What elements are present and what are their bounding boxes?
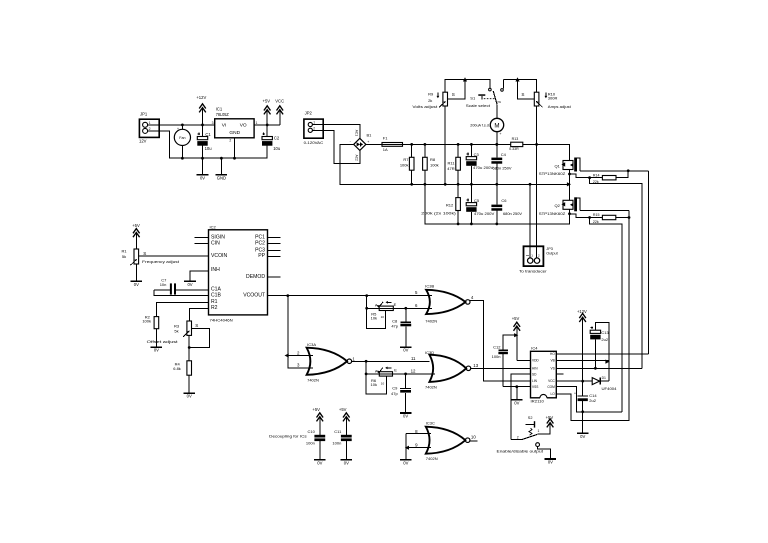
svg-text:100k: 100k <box>430 163 439 168</box>
svg-text:JP2: JP2 <box>305 110 313 115</box>
svg-text:GND: GND <box>217 176 226 181</box>
svg-text:0V: 0V <box>187 394 192 399</box>
svg-text:R7: R7 <box>403 157 409 162</box>
svg-text:C3: C3 <box>474 152 480 157</box>
svg-text:C11: C11 <box>334 429 342 434</box>
svg-text:LO: LO <box>551 392 556 396</box>
svg-text:JP1: JP1 <box>140 111 148 116</box>
svg-text:B1: B1 <box>367 132 373 137</box>
svg-text:10k: 10k <box>371 382 377 387</box>
svg-text:DEMOD: DEMOD <box>246 274 265 280</box>
svg-text:100n: 100n <box>492 354 501 359</box>
svg-text:470u 200V: 470u 200V <box>474 211 495 216</box>
svg-text:5k: 5k <box>174 329 178 334</box>
svg-text:VS: VS <box>551 366 555 370</box>
svg-text:100k: 100k <box>400 163 409 168</box>
svg-text:78L05Z: 78L05Z <box>216 112 230 117</box>
svg-text:1: 1 <box>538 429 540 433</box>
svg-text:IR2110: IR2110 <box>531 399 544 403</box>
svg-text:R8: R8 <box>430 157 436 162</box>
svg-text:C10: C10 <box>307 429 315 434</box>
svg-text:LIN: LIN <box>532 379 538 383</box>
svg-text:VCOIN: VCOIN <box>211 253 227 259</box>
svg-text:To transducer: To transducer <box>519 269 547 274</box>
svg-text:Scale select: Scale select <box>466 103 491 108</box>
svg-text:0V: 0V <box>403 348 408 353</box>
svg-text:+5V: +5V <box>132 223 140 228</box>
svg-text:680n 250V: 680n 250V <box>503 211 522 216</box>
svg-text:R15: R15 <box>593 213 600 217</box>
svg-text:C4: C4 <box>501 152 507 157</box>
svg-text:VCOOUT: VCOOUT <box>243 292 265 298</box>
svg-text:STP13NK60Z: STP13NK60Z <box>539 212 566 216</box>
svg-text:+5V: +5V <box>546 415 554 420</box>
svg-text:Decoupling for ICs: Decoupling for ICs <box>269 434 307 439</box>
svg-text:0V: 0V <box>514 400 519 405</box>
svg-text:Enable/disable output: Enable/disable output <box>497 448 545 453</box>
svg-text:2u2: 2u2 <box>601 337 608 342</box>
svg-text:200uA f.s.d.: 200uA f.s.d. <box>470 124 490 128</box>
svg-text:0V: 0V <box>134 282 139 287</box>
svg-text:S: S <box>521 92 524 97</box>
svg-text:6.8k: 6.8k <box>173 366 181 371</box>
svg-text:A: A <box>375 368 378 373</box>
svg-text:2u2: 2u2 <box>589 398 596 403</box>
svg-text:0V: 0V <box>344 461 349 466</box>
svg-text:10: 10 <box>381 381 385 385</box>
svg-text:AC2: AC2 <box>354 155 358 161</box>
svg-text:PP: PP <box>258 253 265 259</box>
svg-text:Q2: Q2 <box>554 203 560 208</box>
svg-text:IC3C: IC3C <box>426 421 435 426</box>
svg-text:S: S <box>143 251 146 256</box>
svg-text:47R: 47R <box>447 166 454 171</box>
svg-text:SD: SD <box>532 372 537 376</box>
svg-text:7402N: 7402N <box>425 319 437 324</box>
svg-text:680n 250V: 680n 250V <box>493 166 512 171</box>
svg-text:STP13NK60Z: STP13NK60Z <box>539 172 566 176</box>
svg-text:22k: 22k <box>593 220 599 224</box>
svg-text:2: 2 <box>517 436 519 440</box>
svg-text:C2: C2 <box>274 136 280 141</box>
svg-text:0.33R: 0.33R <box>509 147 519 151</box>
svg-text:10k: 10k <box>371 316 377 321</box>
svg-text:11: 11 <box>411 356 416 361</box>
svg-text:INH: INH <box>211 267 220 273</box>
svg-text:F1: F1 <box>383 136 388 141</box>
svg-text:470u 200V: 470u 200V <box>473 165 494 170</box>
svg-text:2: 2 <box>313 126 315 130</box>
svg-text:1A: 1A <box>383 147 388 152</box>
svg-text:0V: 0V <box>187 282 192 287</box>
svg-text:R2: R2 <box>211 305 218 311</box>
svg-text:VSS: VSS <box>532 385 538 389</box>
svg-text:Q1: Q1 <box>554 163 560 168</box>
svg-text:7402N: 7402N <box>425 385 437 390</box>
svg-text:M: M <box>494 122 499 129</box>
svg-text:D1: D1 <box>602 376 606 380</box>
svg-text:10u: 10u <box>273 146 281 151</box>
svg-text:IC3A: IC3A <box>307 342 316 347</box>
svg-text:Frequency adjust: Frequency adjust <box>142 259 180 264</box>
svg-text:A: A <box>375 303 378 308</box>
svg-text:VO: VO <box>240 122 247 128</box>
svg-text:COM: COM <box>547 385 555 389</box>
svg-text:R14: R14 <box>593 173 600 177</box>
svg-text:AC1: AC1 <box>354 130 358 136</box>
svg-text:R9: R9 <box>428 92 434 97</box>
svg-text:7402N: 7402N <box>307 377 319 382</box>
svg-text:3: 3 <box>212 121 214 125</box>
svg-text:IC4: IC4 <box>531 346 538 351</box>
svg-text:R11: R11 <box>448 160 456 165</box>
svg-text:UF4004: UF4004 <box>602 387 617 391</box>
svg-text:S2: S2 <box>528 416 533 420</box>
svg-text:+5V: +5V <box>512 316 520 321</box>
svg-text:IC1: IC1 <box>216 107 223 112</box>
svg-text:CIN: CIN <box>211 241 220 247</box>
svg-text:100n: 100n <box>306 440 315 445</box>
svg-text:74HC4046N: 74HC4046N <box>210 317 233 322</box>
svg-text:IC2: IC2 <box>210 224 217 229</box>
svg-text:Fan: Fan <box>179 136 185 140</box>
svg-text:47p: 47p <box>391 323 398 328</box>
svg-text:12V: 12V <box>139 138 147 143</box>
svg-text:10n: 10n <box>160 282 167 287</box>
svg-text:0V: 0V <box>403 414 408 419</box>
svg-text:C6: C6 <box>501 198 507 203</box>
svg-text:PC1: PC1 <box>255 234 265 240</box>
svg-text:10: 10 <box>381 315 385 319</box>
svg-text:JP3: JP3 <box>546 247 553 251</box>
svg-text:C1B: C1B <box>211 292 222 298</box>
svg-text:S: S <box>452 92 455 97</box>
svg-text:CW: CW <box>497 100 502 104</box>
svg-text:VDD: VDD <box>532 358 539 362</box>
svg-text:R13: R13 <box>512 137 519 141</box>
svg-text:1: 1 <box>256 121 258 125</box>
svg-text:+12V: +12V <box>196 95 206 100</box>
svg-text:300R: 300R <box>548 96 558 101</box>
svg-text:E: E <box>394 302 397 307</box>
svg-text:0V: 0V <box>317 461 322 466</box>
svg-text:12: 12 <box>411 369 416 374</box>
svg-text:IC3B: IC3B <box>425 283 434 288</box>
svg-text:100n: 100n <box>332 440 341 445</box>
svg-text:C12: C12 <box>493 344 501 349</box>
svg-text:47p: 47p <box>391 391 398 396</box>
svg-text:10u: 10u <box>205 146 213 151</box>
svg-text:VCC: VCC <box>275 98 284 103</box>
svg-text:0V: 0V <box>580 434 585 439</box>
svg-text:10: 10 <box>471 435 476 440</box>
svg-text:+: + <box>177 127 179 131</box>
svg-text:S1: S1 <box>470 95 476 100</box>
svg-text:+5V: +5V <box>312 407 320 412</box>
svg-text:2: 2 <box>229 139 231 143</box>
svg-text:100k: 100k <box>142 319 151 324</box>
svg-text:VI: VI <box>222 122 227 128</box>
svg-text:+: + <box>574 391 576 395</box>
svg-text:0V: 0V <box>403 460 408 465</box>
svg-text:1: 1 <box>313 121 315 125</box>
svg-text:13: 13 <box>473 363 478 368</box>
svg-text:IC3D: IC3D <box>425 350 434 355</box>
svg-text:R1: R1 <box>122 248 128 253</box>
svg-text:0V: 0V <box>548 460 553 465</box>
svg-text:Output: Output <box>546 252 558 256</box>
svg-text:22k: 22k <box>593 180 599 184</box>
svg-text:+: + <box>499 132 501 136</box>
svg-text:C13: C13 <box>601 330 609 335</box>
svg-text:C1: C1 <box>205 132 211 137</box>
svg-text:C5: C5 <box>474 198 480 203</box>
svg-text:PC2: PC2 <box>255 241 265 247</box>
svg-text:200k (2x 100k): 200k (2x 100k) <box>421 211 456 216</box>
svg-text:Offset adjust: Offset adjust <box>147 339 179 344</box>
svg-text:Volts adjust: Volts adjust <box>412 104 438 109</box>
svg-text:Amps adjust: Amps adjust <box>548 104 572 109</box>
svg-text:GND: GND <box>229 130 240 136</box>
svg-text:S: S <box>195 323 198 328</box>
svg-text:SIGIN: SIGIN <box>211 234 225 240</box>
svg-text:HO: HO <box>550 352 555 356</box>
svg-text:0V: 0V <box>154 348 159 353</box>
svg-text:HIN: HIN <box>532 366 538 370</box>
svg-text:VB: VB <box>551 358 555 362</box>
svg-text:0V: 0V <box>200 176 205 181</box>
svg-text:0-120VAC: 0-120VAC <box>304 140 324 145</box>
svg-text:+5V: +5V <box>263 98 271 103</box>
svg-text:R12: R12 <box>446 203 454 208</box>
svg-text:5k: 5k <box>122 254 126 259</box>
svg-text:2k: 2k <box>428 98 432 103</box>
svg-text:+: + <box>367 140 369 144</box>
svg-text:7402N: 7402N <box>426 456 438 461</box>
svg-text:+5V: +5V <box>339 407 347 412</box>
svg-text:E: E <box>394 368 397 373</box>
svg-text:VCC: VCC <box>548 379 555 383</box>
